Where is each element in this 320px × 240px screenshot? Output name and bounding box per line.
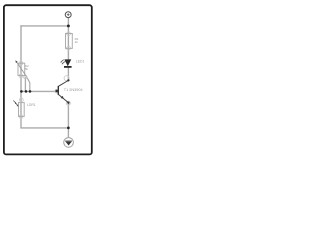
wire: pot wiper drop B [26,76,30,91]
node: base junction [20,90,23,93]
pin circle: R2 bottom [19,74,23,78]
power supply V1 [65,12,71,18]
svg-text:5k: 5k [25,67,29,71]
photoresistor LDR1 [13,101,35,117]
wire: left rail down through pot and into LDR [20,25,22,117]
resistor R1 [66,34,79,49]
wire: LED cathode to collector [67,67,69,80]
wire: pot wiper drop A [24,77,26,92]
wire: base horizontal [21,90,57,92]
pin circle: T1 collector [64,76,69,81]
wire: supply down through R1 to LED anode [67,17,69,60]
wire: top horizontal rail [20,25,68,27]
potentiometer R2 [15,60,29,76]
ground [64,138,74,148]
pin circle: R1 bottom [67,46,71,50]
pin circle: LDR bottom [19,115,23,119]
svg-text:1k: 1k [75,40,79,44]
pin circle: R2 top [19,61,23,65]
pin circle: R1 top [67,32,71,36]
pin circle: LDR top [19,98,23,102]
border frame [4,5,92,154]
wire: LDR to bottom rail [21,116,68,128]
svg-text:LED1: LED1 [76,60,85,64]
node: wiper junction A [25,90,28,93]
wire: emitter down to ground [67,103,69,139]
pin circle: R2 wiper [24,76,27,79]
svg-text:LDR1: LDR1 [27,103,36,107]
background [0,0,100,161]
node: top junction [67,24,70,27]
node: bottom junction [67,127,70,130]
pin circle: T1 base [55,90,58,93]
pin circle: T1 emitter [66,101,70,105]
LED LED1 [60,59,84,67]
node: wiper junction B [29,90,32,93]
svg-text:T1 2N3904: T1 2N3904 [64,88,83,92]
transistor T1 [55,79,82,104]
